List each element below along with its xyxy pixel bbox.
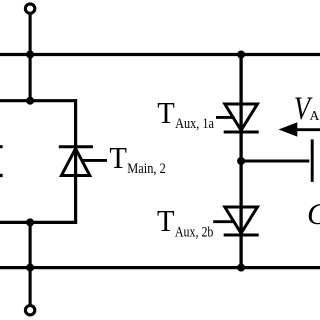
wire bottom rail	[0, 266, 320, 269]
junction dot left box top node	[26, 97, 34, 105]
terminal bottom	[25, 306, 34, 315]
svg-text:Aux, 1a: Aux, 1a	[175, 116, 215, 132]
junction dot bottom rail left	[26, 264, 34, 272]
wire stub cropped left component base corner tip	[0, 174, 3, 177]
wire capacitor tap horizontal	[241, 160, 309, 163]
wire left box top	[0, 99, 76, 102]
label V_A	[294, 91, 320, 127]
wire node B down to bottom terminal	[29, 221, 32, 305]
wire stub cropped left component cathode bar tip	[0, 145, 3, 148]
junction dot top rail right branch	[237, 51, 245, 59]
label T_Aux,2b	[157, 203, 213, 241]
svg-text:T: T	[157, 203, 175, 238]
wire top terminal to top rail and node A	[29, 14, 32, 102]
label T_Aux,1a	[157, 95, 214, 132]
junction dot left box bottom node	[26, 218, 34, 226]
junction dot capacitor tap node	[237, 157, 245, 165]
svg-text:Aux, 2b: Aux, 2b	[175, 225, 214, 241]
svg-text:T: T	[109, 140, 127, 175]
junction dot top rail left	[26, 51, 34, 59]
svg-text:A: A	[310, 109, 320, 124]
svg-text:C: C	[307, 196, 320, 231]
label T_Main,2	[109, 140, 165, 177]
thyristor T_Aux,2b (cathode down)	[213, 207, 259, 235]
wire top rail	[0, 53, 320, 56]
svg-text:Main, 2: Main, 2	[127, 161, 166, 177]
wire left box right side vertical through T_Main,2	[74, 99, 77, 224]
terminal top	[25, 4, 34, 13]
wire right branch vertical (aux thyristor leg)	[239, 55, 242, 268]
label C	[307, 196, 320, 231]
junction dot bottom rail right branch	[237, 264, 245, 272]
svg-text:T: T	[157, 95, 175, 130]
capacitor C left plate	[311, 139, 314, 182]
voltage arrow (points left)	[279, 122, 320, 136]
thyristor T_Aux,1a (cathode down)	[216, 104, 259, 132]
thyristor T_Main,2 (cathode up)	[59, 147, 107, 176]
wire left box bottom	[0, 221, 76, 224]
